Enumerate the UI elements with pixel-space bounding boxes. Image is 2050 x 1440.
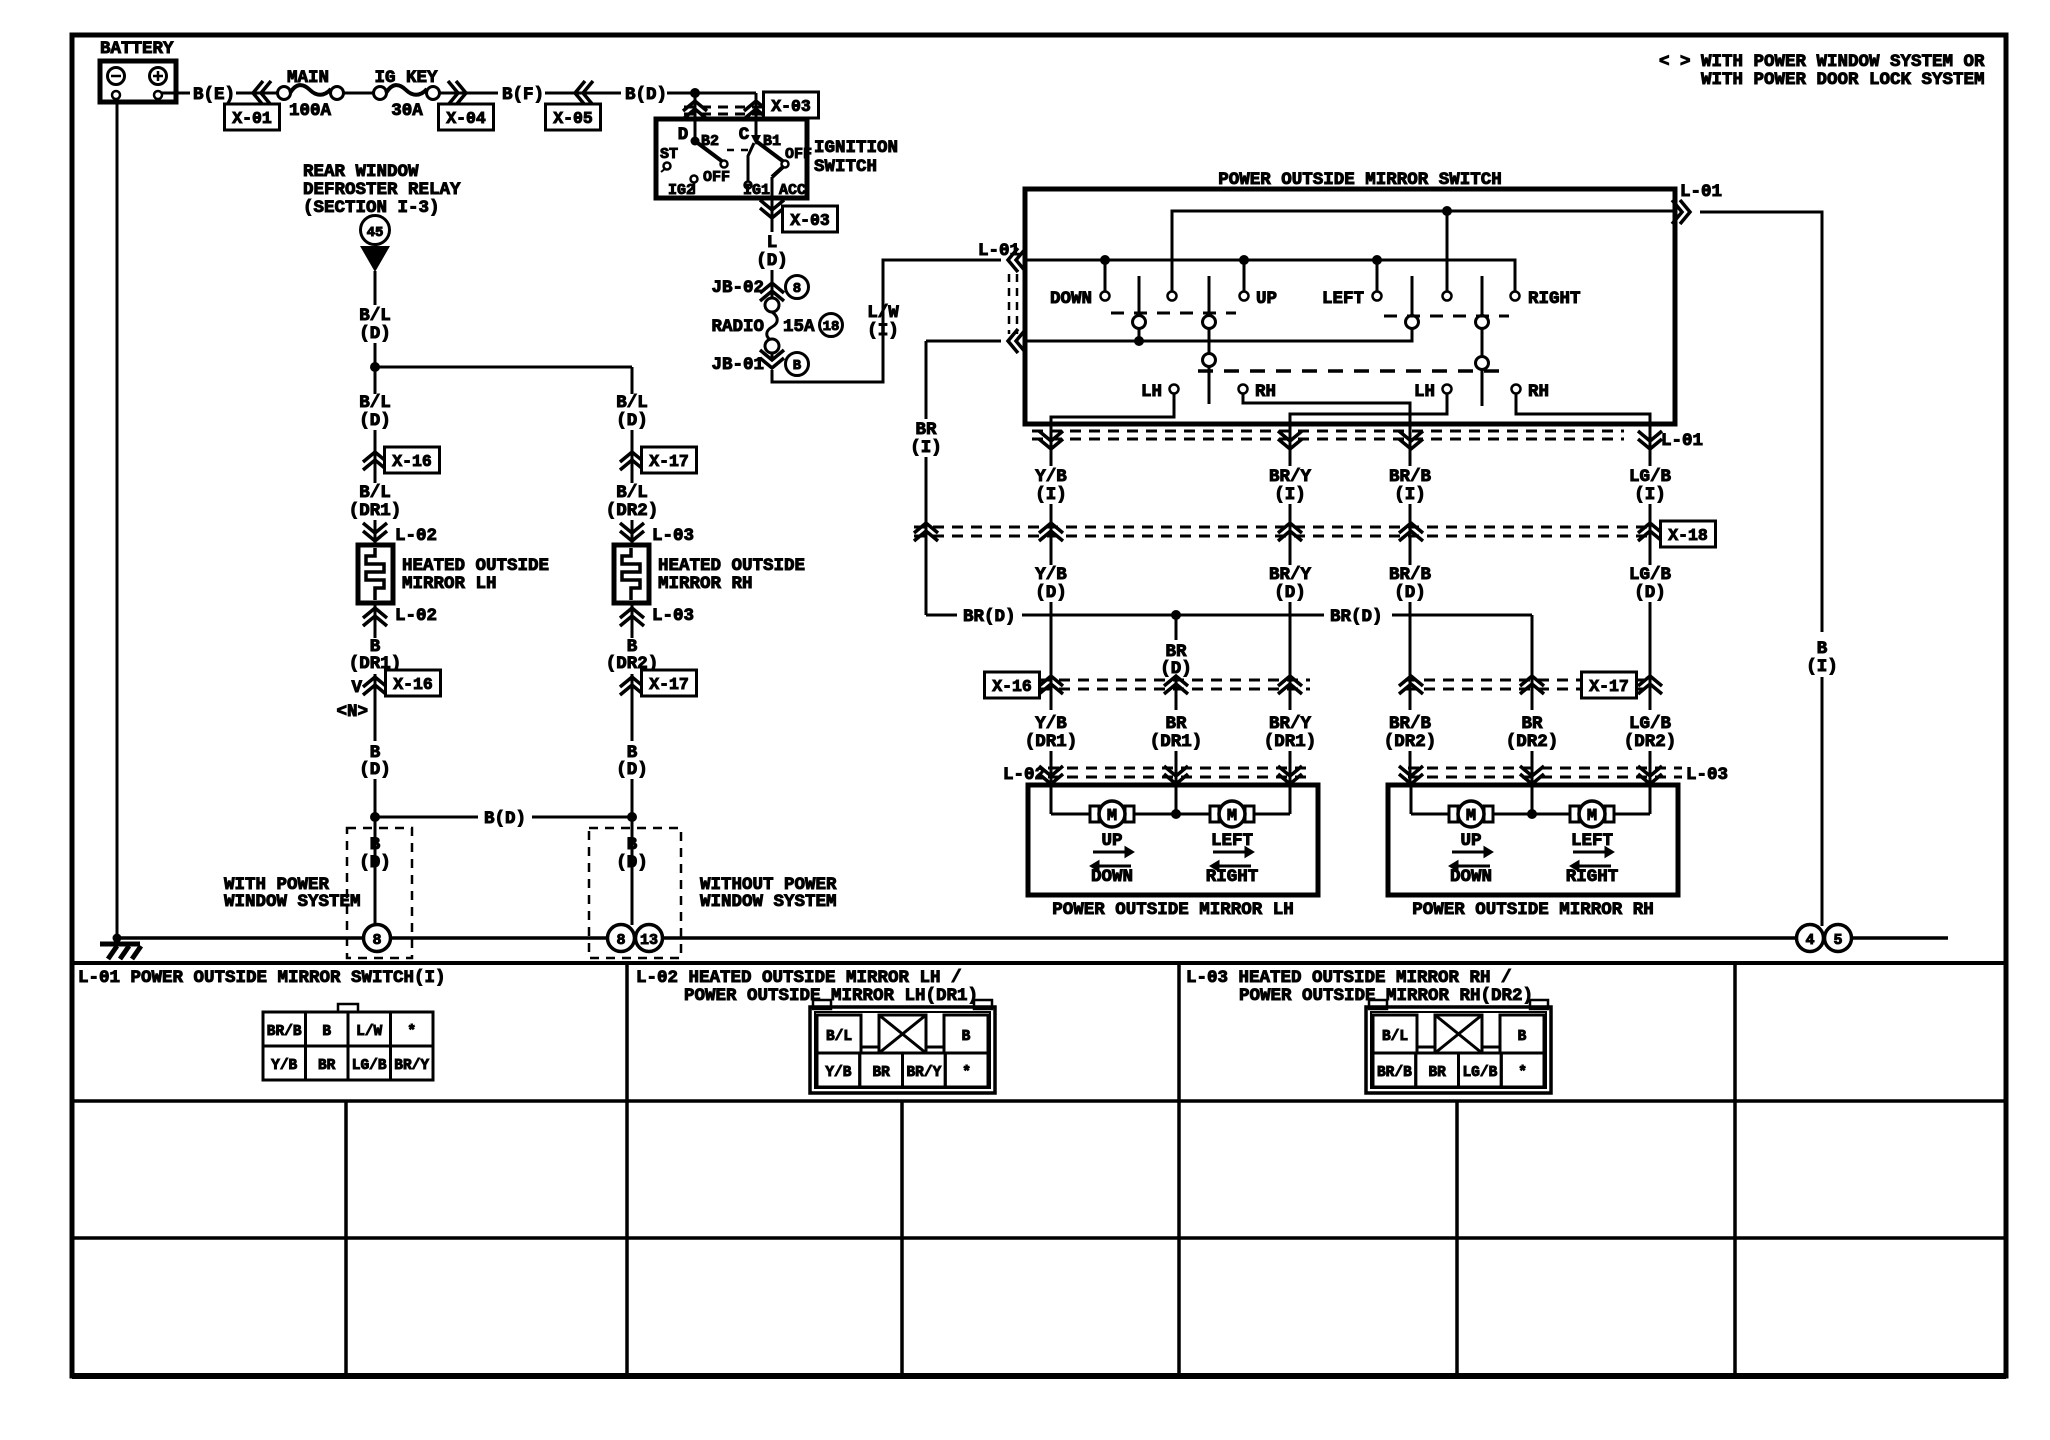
svg-text:(D): (D) bbox=[359, 760, 391, 780]
svg-text:Y/B: Y/B bbox=[271, 1058, 297, 1074]
wire BR/Y(I) bbox=[1269, 424, 1312, 565]
ground points 8 and 13 bbox=[608, 925, 663, 952]
svg-text:L-02: L-02 bbox=[1003, 765, 1045, 785]
wire Y/B(I) bbox=[1035, 424, 1067, 565]
switch contacts row 2 (LH/RH) bbox=[1141, 382, 1549, 402]
svg-text:*: * bbox=[407, 1024, 416, 1040]
svg-text:X-05: X-05 bbox=[553, 109, 593, 128]
svg-text:M: M bbox=[1587, 807, 1597, 826]
svg-text:LG/B: LG/B bbox=[352, 1058, 387, 1074]
connector table grid bbox=[72, 963, 2006, 1376]
svg-text:UP: UP bbox=[1101, 831, 1122, 851]
svg-text:X-04: X-04 bbox=[446, 109, 486, 128]
svg-text:BR: BR bbox=[915, 420, 937, 440]
svg-text:L-03: L-03 bbox=[1686, 765, 1728, 785]
svg-text:IG2: IG2 bbox=[668, 182, 695, 199]
wire B/L(D) RH label bbox=[616, 393, 648, 483]
svg-text:B/L: B/L bbox=[1382, 1029, 1408, 1045]
svg-text:REAR WINDOW: REAR WINDOW bbox=[303, 162, 419, 182]
svg-text:B: B bbox=[1518, 1029, 1527, 1045]
connector L-03 (below heated mirror RH) bbox=[620, 603, 694, 638]
wire L/W(I) to mirror switch bbox=[772, 260, 1001, 382]
svg-text:B/L: B/L bbox=[359, 393, 391, 413]
ground points 4 and 5 bbox=[1797, 925, 1852, 952]
connector L-02 (mirror LH) bbox=[1003, 765, 1312, 785]
wire B(D) RH bbox=[616, 743, 648, 925]
ignition switch bbox=[656, 119, 898, 203]
svg-text:B(D): B(D) bbox=[484, 809, 526, 829]
svg-text:(DR2): (DR2) bbox=[1384, 732, 1437, 752]
svg-text:(DR2): (DR2) bbox=[1506, 732, 1559, 752]
svg-text:(D): (D) bbox=[616, 411, 648, 431]
svg-text:HEATED OUTSIDE: HEATED OUTSIDE bbox=[402, 556, 549, 576]
svg-text:(D): (D) bbox=[1274, 583, 1306, 603]
junction node BR(D) bbox=[1171, 610, 1181, 620]
switch pole 2 bbox=[1203, 276, 1216, 404]
wire B(D) LH bbox=[359, 743, 391, 925]
power outside mirror switch bbox=[1025, 170, 1675, 424]
svg-text:Y/B: Y/B bbox=[1035, 467, 1067, 487]
svg-text:BR: BR bbox=[1165, 714, 1187, 734]
svg-text:BR/Y: BR/Y bbox=[394, 1058, 429, 1074]
svg-text:BR(D): BR(D) bbox=[1330, 607, 1383, 627]
wire BR/B(D) bbox=[1389, 565, 1432, 710]
svg-text:OFF: OFF bbox=[703, 169, 730, 186]
wire RH2 to LG/B bbox=[1516, 393, 1650, 424]
wire BR(DR2) label bbox=[1506, 714, 1559, 783]
connector X-03 (ignition feed) bbox=[683, 92, 819, 140]
svg-text:X-03: X-03 bbox=[790, 211, 830, 230]
svg-text:X-03: X-03 bbox=[771, 97, 811, 116]
wire BR(DR2) drop bbox=[1531, 615, 1534, 710]
svg-text:(DR1): (DR1) bbox=[349, 501, 402, 521]
connector L-01 (switch bottom exits) bbox=[1032, 431, 1703, 451]
svg-text:(DR2): (DR2) bbox=[606, 501, 659, 521]
svg-text:30A: 30A bbox=[391, 101, 423, 121]
svg-text:M: M bbox=[1227, 807, 1237, 826]
svg-text:LG/B: LG/B bbox=[1629, 714, 1672, 734]
svg-text:X-18: X-18 bbox=[1668, 526, 1708, 545]
svg-text:L-03 HEATED OUTSIDE MIRROR RH: L-03 HEATED OUTSIDE MIRROR RH / bbox=[1186, 968, 1512, 988]
svg-text:D: D bbox=[678, 125, 689, 145]
label power outside mirror LH bbox=[1052, 900, 1294, 920]
svg-text:LG/B: LG/B bbox=[1629, 467, 1672, 487]
svg-text:B: B bbox=[322, 1024, 331, 1040]
motor M (up/down) RH bbox=[1449, 801, 1493, 887]
option box: without power window system bbox=[589, 828, 837, 958]
svg-text:X-16: X-16 bbox=[392, 452, 432, 471]
svg-text:X-16: X-16 bbox=[992, 677, 1032, 696]
connector L-01 (switch right exit) bbox=[1672, 182, 1722, 224]
svg-text:X-17: X-17 bbox=[649, 675, 689, 694]
connector X-17 (B/L) bbox=[620, 447, 697, 473]
connector X-18 bbox=[914, 521, 1716, 547]
wire B(F) bbox=[439, 92, 498, 95]
svg-text:BR: BR bbox=[1521, 714, 1543, 734]
switch pole 4 bbox=[1476, 276, 1489, 406]
junction node B(D) RH bbox=[627, 812, 637, 822]
motor M (left/right) RH bbox=[1566, 801, 1619, 887]
svg-text:B/L: B/L bbox=[359, 306, 391, 326]
wire BR/Y(DR1) bbox=[1264, 714, 1317, 783]
connector JB-02 bbox=[711, 276, 808, 302]
svg-text:(DR2): (DR2) bbox=[1624, 732, 1677, 752]
connector X-16 (door LH) bbox=[985, 672, 1311, 698]
svg-text:IGNITION: IGNITION bbox=[814, 138, 898, 158]
wire LH1 to Y/B bbox=[1051, 393, 1174, 424]
wire B/L(DR1) bbox=[349, 483, 402, 545]
svg-text:L: L bbox=[767, 233, 778, 253]
svg-text:B/L: B/L bbox=[826, 1029, 852, 1045]
connector X-04 bbox=[439, 81, 494, 130]
svg-text:18: 18 bbox=[823, 319, 840, 335]
wire B(E) bbox=[162, 85, 282, 105]
wire B(DR2) bbox=[606, 637, 659, 741]
svg-text:<N>: <N> bbox=[336, 702, 368, 722]
motor M (left/right) LH bbox=[1206, 801, 1259, 887]
motor M (up/down) LH bbox=[1090, 801, 1134, 887]
connector L-02 (into heated mirror LH) bbox=[363, 523, 437, 546]
svg-text:8: 8 bbox=[372, 932, 381, 949]
svg-text:MIRROR LH: MIRROR LH bbox=[402, 574, 497, 594]
svg-text:MIRROR RH: MIRROR RH bbox=[658, 574, 753, 594]
svg-text:L-03: L-03 bbox=[652, 606, 694, 626]
svg-text:100A: 100A bbox=[289, 101, 332, 121]
svg-text:(D): (D) bbox=[359, 324, 391, 344]
wire: switch bus 3 (pole return) bbox=[1025, 276, 1412, 346]
wire: switch bus 2 bbox=[1025, 255, 1515, 291]
svg-text:< > WITH POWER WINDOW SYSTEM O: < > WITH POWER WINDOW SYSTEM OR bbox=[1659, 52, 1985, 72]
svg-text:RIGHT: RIGHT bbox=[1528, 289, 1581, 309]
table title L-03 bbox=[1186, 968, 1533, 1006]
svg-text:(DR1): (DR1) bbox=[1150, 732, 1203, 752]
connector X-17 (B) bbox=[620, 670, 697, 696]
wire BR(DR1) bbox=[1150, 714, 1203, 783]
svg-text:M: M bbox=[1107, 807, 1117, 826]
svg-text:BR: BR bbox=[872, 1065, 890, 1081]
connector X-16 (B/L) bbox=[363, 447, 440, 473]
connector X-01 bbox=[225, 81, 280, 130]
svg-text:5: 5 bbox=[1833, 932, 1842, 949]
svg-text:Y/B: Y/B bbox=[1035, 565, 1067, 585]
junction node B(D) LH bbox=[370, 812, 380, 822]
svg-text:DEFROSTER RELAY: DEFROSTER RELAY bbox=[303, 180, 461, 200]
svg-text:L-03: L-03 bbox=[652, 526, 694, 546]
connector L-03 (into heated mirror RH) bbox=[620, 523, 694, 546]
svg-text:BR/B: BR/B bbox=[267, 1024, 302, 1040]
svg-text:(D): (D) bbox=[616, 853, 648, 873]
svg-text:B(E): B(E) bbox=[193, 85, 235, 105]
svg-text:DOWN: DOWN bbox=[1091, 867, 1133, 887]
svg-text:15A: 15A bbox=[783, 317, 815, 337]
connector X-05 bbox=[546, 81, 601, 130]
svg-text:*: * bbox=[962, 1065, 971, 1081]
ground bus bbox=[113, 934, 1949, 943]
svg-text:X-16: X-16 bbox=[393, 675, 433, 694]
wire B/L(D) LH label bbox=[359, 393, 391, 483]
svg-text:UP: UP bbox=[1256, 289, 1277, 309]
svg-text:X-17: X-17 bbox=[1589, 677, 1629, 696]
ground point 8 bbox=[364, 925, 391, 952]
wire LG/B(DR2) bbox=[1624, 714, 1677, 783]
svg-text:(I): (I) bbox=[867, 321, 899, 341]
heated outside mirror LH bbox=[358, 545, 549, 603]
wire B(D) link bbox=[375, 809, 632, 829]
svg-text:B/L: B/L bbox=[359, 483, 391, 503]
svg-text:(I): (I) bbox=[1274, 485, 1306, 505]
svg-text:45: 45 bbox=[367, 225, 384, 241]
svg-text:4: 4 bbox=[1805, 932, 1814, 949]
svg-text:RIGHT: RIGHT bbox=[1566, 867, 1619, 887]
svg-text:IG KEY: IG KEY bbox=[374, 68, 438, 88]
svg-text:*: * bbox=[1518, 1065, 1527, 1081]
svg-text:BR/B: BR/B bbox=[1389, 714, 1432, 734]
svg-text:L/W: L/W bbox=[356, 1024, 382, 1040]
svg-text:BR/B: BR/B bbox=[1377, 1065, 1412, 1081]
svg-text:WINDOW SYSTEM: WINDOW SYSTEM bbox=[700, 892, 837, 912]
svg-text:ACC: ACC bbox=[779, 182, 806, 199]
svg-text:(D): (D) bbox=[1634, 583, 1666, 603]
svg-text:B: B bbox=[1817, 639, 1828, 659]
svg-text:B: B bbox=[793, 358, 802, 374]
connector X-17 (door RH) bbox=[1399, 672, 1662, 698]
connector pinout L-03 bbox=[1366, 1000, 1551, 1093]
svg-text:L-01: L-01 bbox=[1680, 182, 1722, 202]
heated outside mirror RH bbox=[614, 545, 805, 603]
svg-text:RH: RH bbox=[1255, 382, 1276, 402]
svg-text:Y/B: Y/B bbox=[825, 1065, 851, 1081]
battery ground wire bbox=[116, 100, 119, 938]
svg-text:L-02: L-02 bbox=[395, 526, 437, 546]
svg-text:(D): (D) bbox=[1035, 583, 1067, 603]
svg-text:RIGHT: RIGHT bbox=[1206, 867, 1259, 887]
svg-text:(DR1): (DR1) bbox=[1264, 732, 1317, 752]
wire B(D) bbox=[625, 85, 756, 105]
label power outside mirror RH bbox=[1412, 900, 1654, 920]
wire BR/B(DR2) bbox=[1384, 714, 1437, 783]
table title L-01 bbox=[78, 968, 446, 988]
wire Y/B(D) bbox=[1035, 565, 1067, 710]
wire branch B/L(D) to RH bbox=[375, 367, 632, 394]
svg-text:HEATED OUTSIDE: HEATED OUTSIDE bbox=[658, 556, 805, 576]
svg-text:(D): (D) bbox=[616, 760, 648, 780]
connector X-16 (B) bbox=[336, 670, 440, 722]
svg-text:BATTERY: BATTERY bbox=[100, 39, 174, 59]
svg-text:POWER OUTSIDE MIRROR RH: POWER OUTSIDE MIRROR RH bbox=[1412, 900, 1654, 920]
svg-text:B: B bbox=[370, 835, 381, 855]
svg-text:B(F): B(F) bbox=[502, 85, 544, 105]
svg-text:(I): (I) bbox=[1394, 485, 1426, 505]
svg-text:B: B bbox=[962, 1029, 971, 1045]
svg-text:DOWN: DOWN bbox=[1050, 289, 1092, 309]
svg-text:DOWN: DOWN bbox=[1450, 867, 1492, 887]
svg-text:WITH POWER DOOR LOCK SYSTEM: WITH POWER DOOR LOCK SYSTEM bbox=[1701, 70, 1985, 90]
svg-text:BR: BR bbox=[318, 1058, 336, 1074]
svg-text:BR(D): BR(D) bbox=[963, 607, 1016, 627]
wire L(D) bbox=[756, 233, 788, 298]
table title L-02 bbox=[636, 968, 978, 1006]
svg-text:B: B bbox=[627, 835, 638, 855]
svg-text:BR/B: BR/B bbox=[1389, 467, 1432, 487]
wire BR(D) drop DR1 bbox=[1160, 615, 1192, 710]
svg-text:X-01: X-01 bbox=[232, 109, 272, 128]
switch contacts row 1 bbox=[1050, 289, 1581, 309]
svg-text:LEFT: LEFT bbox=[1322, 289, 1364, 309]
svg-text:B/L: B/L bbox=[616, 483, 648, 503]
battery bbox=[100, 39, 176, 102]
wire BR(D) horizontal bbox=[926, 607, 1532, 627]
svg-text:L/W: L/W bbox=[867, 303, 899, 323]
junction node B(D) bbox=[690, 88, 700, 98]
svg-text:(I): (I) bbox=[1806, 657, 1838, 677]
junction on inner feed bbox=[1442, 206, 1452, 291]
svg-text:RH: RH bbox=[1528, 382, 1549, 402]
svg-text:BR/Y: BR/Y bbox=[1269, 467, 1312, 487]
svg-text:RADIO: RADIO bbox=[711, 317, 764, 337]
svg-text:LG/B: LG/B bbox=[1629, 565, 1672, 585]
svg-text:LG/B: LG/B bbox=[1462, 1065, 1497, 1081]
wire LG/B(I) bbox=[1629, 424, 1672, 565]
wire RH1 to BR/B bbox=[1243, 393, 1410, 424]
switch gang link dashes bbox=[1111, 313, 1509, 371]
svg-text:(D): (D) bbox=[1394, 583, 1426, 603]
svg-text:IG1: IG1 bbox=[743, 182, 770, 199]
svg-text:BR/B: BR/B bbox=[1389, 565, 1432, 585]
svg-text:JB-01: JB-01 bbox=[711, 355, 764, 375]
svg-text:8: 8 bbox=[793, 281, 801, 297]
connector L-01 (switch left entries) bbox=[978, 241, 1026, 353]
svg-text:BR/Y: BR/Y bbox=[1269, 714, 1312, 734]
fuse MAIN 100A bbox=[278, 68, 375, 121]
svg-text:B/L: B/L bbox=[616, 393, 648, 413]
wire BR/B(I) bbox=[1389, 424, 1432, 565]
ground symbol bbox=[100, 944, 141, 959]
rear window defroster relay reference bbox=[303, 162, 461, 272]
wire LG/B(D) bbox=[1629, 565, 1672, 710]
svg-text:V: V bbox=[351, 678, 362, 698]
svg-text:(I): (I) bbox=[910, 438, 942, 458]
svg-text:(D): (D) bbox=[359, 411, 391, 431]
svg-text:B(D): B(D) bbox=[625, 85, 667, 105]
switch pole 3 bbox=[1406, 316, 1419, 329]
svg-text:LH: LH bbox=[1414, 382, 1435, 402]
connector pinout L-01 bbox=[263, 1004, 433, 1080]
connector L-03 (mirror RH) bbox=[1399, 765, 1728, 785]
svg-text:(D): (D) bbox=[756, 251, 788, 271]
svg-text:L-01 POWER OUTSIDE MIRROR SWIT: L-01 POWER OUTSIDE MIRROR SWITCH(I) bbox=[78, 968, 446, 988]
power outside mirror RH bbox=[1388, 785, 1678, 895]
svg-text:(I): (I) bbox=[1634, 485, 1666, 505]
svg-text:(I): (I) bbox=[1035, 485, 1067, 505]
wire: switch inner feed top bbox=[1172, 211, 1675, 296]
wire B/L(D) from relay bbox=[359, 271, 391, 394]
connector L-02 (below heated mirror LH) bbox=[363, 603, 437, 638]
svg-text:L-01: L-01 bbox=[1661, 431, 1703, 451]
wire BR(I) bbox=[910, 341, 1001, 615]
svg-text:13: 13 bbox=[640, 932, 658, 949]
connector pinout L-02 bbox=[810, 1000, 995, 1093]
svg-text:BR/Y: BR/Y bbox=[906, 1065, 941, 1081]
fuse IG KEY 30A bbox=[374, 68, 440, 121]
svg-text:ST: ST bbox=[660, 146, 678, 163]
connector JB-01 bbox=[711, 350, 808, 376]
svg-text:POWER OUTSIDE MIRROR LH: POWER OUTSIDE MIRROR LH bbox=[1052, 900, 1294, 920]
wire B(DR1) bbox=[349, 637, 402, 741]
svg-text:LH: LH bbox=[1141, 382, 1162, 402]
connector X-03 (lower) bbox=[760, 198, 838, 232]
svg-text:(D): (D) bbox=[359, 853, 391, 873]
svg-text:Y/B: Y/B bbox=[1035, 714, 1067, 734]
svg-text:C: C bbox=[739, 125, 750, 145]
svg-text:L-02: L-02 bbox=[395, 606, 437, 626]
svg-text:BR: BR bbox=[1428, 1065, 1446, 1081]
power outside mirror LH bbox=[1028, 785, 1318, 895]
junction node B/L(D) bbox=[370, 362, 380, 372]
svg-text:UP: UP bbox=[1460, 831, 1481, 851]
svg-text:JB-02: JB-02 bbox=[711, 278, 764, 298]
svg-text:X-17: X-17 bbox=[649, 452, 689, 471]
svg-text:M: M bbox=[1466, 807, 1476, 826]
svg-text:(DR1): (DR1) bbox=[1025, 732, 1078, 752]
svg-text:L-01: L-01 bbox=[978, 241, 1020, 261]
fuse RADIO 15A bbox=[711, 298, 842, 353]
svg-text:8: 8 bbox=[616, 932, 625, 949]
svg-text:BR/Y: BR/Y bbox=[1269, 565, 1312, 585]
option box: with power window system bbox=[224, 828, 412, 958]
wire LH2 to BR/Y bbox=[1290, 393, 1447, 424]
wire BR/Y(D) bbox=[1269, 565, 1312, 710]
note: with power window system bbox=[1659, 52, 1985, 90]
wire: L-01 exit to ground (B(I)) bbox=[1700, 212, 1838, 926]
svg-text:L-02 HEATED OUTSIDE MIRROR LH: L-02 HEATED OUTSIDE MIRROR LH / bbox=[636, 968, 962, 988]
svg-text:MAIN: MAIN bbox=[287, 68, 329, 88]
wire Y/B(DR1) bbox=[1025, 714, 1078, 783]
svg-text:OFF: OFF bbox=[785, 146, 812, 163]
switch pole 1 bbox=[1133, 276, 1146, 341]
wire B/L(DR2) bbox=[606, 483, 659, 545]
svg-text:SWITCH: SWITCH bbox=[814, 157, 877, 177]
svg-text:WINDOW SYSTEM: WINDOW SYSTEM bbox=[224, 892, 361, 912]
